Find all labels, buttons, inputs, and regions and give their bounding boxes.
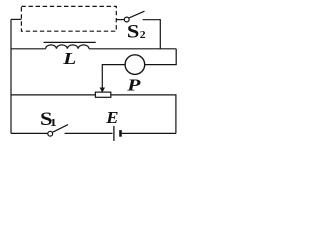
svg-text:L: L bbox=[62, 50, 76, 69]
meter P bbox=[125, 55, 145, 75]
wire bottom left bbox=[11, 132, 48, 134]
switch S2 pivot bbox=[124, 17, 129, 22]
resistor R bbox=[95, 92, 110, 97]
wire row4 left bbox=[11, 94, 95, 96]
switch S1 pivot bbox=[48, 131, 53, 136]
label S1 bbox=[40, 109, 57, 130]
label S2 bbox=[127, 21, 146, 42]
battery E short plate bbox=[119, 130, 122, 137]
wire row3 left with wiper drop bbox=[102, 65, 125, 88]
inductor L bbox=[44, 42, 96, 48]
switch S2 blade bbox=[129, 11, 145, 18]
switch S1 blade bbox=[52, 125, 68, 133]
wiper arrow bbox=[100, 88, 105, 93]
dashed box bbox=[21, 6, 116, 31]
svg-text:1: 1 bbox=[50, 117, 57, 129]
svg-text:S: S bbox=[127, 21, 139, 42]
wire S1 to battery bbox=[65, 132, 113, 134]
battery E long plate bbox=[113, 126, 115, 141]
wire row2 right bbox=[89, 48, 176, 50]
wire left vertical bus bbox=[10, 19, 12, 133]
wire row2 left bbox=[11, 48, 46, 50]
wire battery to bottom right bbox=[122, 132, 176, 134]
wire row4 right down to bottom bbox=[111, 95, 176, 133]
svg-text:2: 2 bbox=[140, 30, 146, 41]
svg-text:E: E bbox=[105, 107, 118, 126]
wire stub to dashed box bbox=[11, 18, 21, 20]
wire right loop row2 to row3 bbox=[145, 49, 177, 65]
wire switch S2 fixed contact down to row2 bbox=[143, 20, 161, 49]
wire stub from dashed box to switch S2 bbox=[116, 19, 124, 21]
svg-text:P: P bbox=[126, 76, 140, 95]
